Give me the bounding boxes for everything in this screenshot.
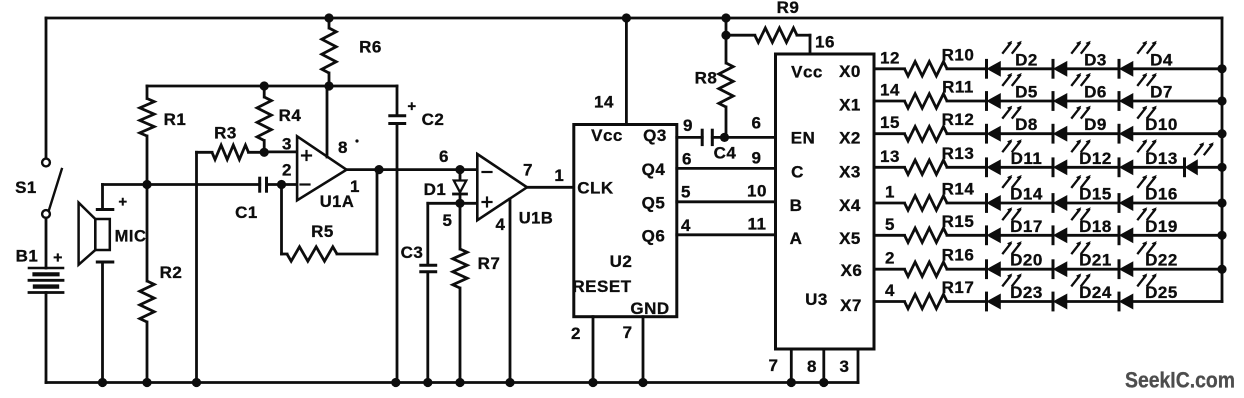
switch S1 — [15, 159, 62, 218]
LED D18 — [1053, 207, 1112, 244]
svg-text:B1: B1 — [16, 246, 39, 265]
svg-text:3: 3 — [840, 357, 850, 376]
svg-text:D6: D6 — [1084, 83, 1107, 102]
junction: U3 pin8/ground — [819, 378, 828, 387]
wire: R3 to ground rail — [195, 152, 198, 382]
resistor R2 — [140, 185, 183, 383]
junction: row 5/right rail — [1217, 198, 1226, 207]
wire: bottom ground rail — [46, 381, 858, 384]
svg-text:C4: C4 — [714, 144, 737, 163]
resistor R11 — [880, 78, 986, 109]
svg-text:U3: U3 — [805, 290, 828, 309]
svg-text:7: 7 — [623, 323, 633, 342]
svg-text:5: 5 — [885, 215, 895, 234]
junction: R6 top rail — [324, 13, 333, 22]
svg-text:11: 11 — [748, 215, 767, 234]
junction: U1A output/R5 — [374, 165, 383, 174]
LED D21 — [1053, 241, 1112, 278]
LED D15 — [1053, 175, 1112, 212]
svg-text:4: 4 — [496, 215, 506, 234]
resistor R7 — [453, 203, 501, 382]
svg-text:D7: D7 — [1150, 83, 1173, 102]
wire: node to U1A pin 3 — [264, 150, 297, 153]
LED D20 — [987, 241, 1043, 278]
svg-text:R9: R9 — [777, 0, 800, 17]
junction: U2 pin7/ground — [638, 378, 647, 387]
svg-text:D3: D3 — [1084, 50, 1107, 69]
LED D23 — [987, 273, 1043, 310]
svg-text:9: 9 — [683, 116, 693, 135]
LED D2 — [987, 41, 1038, 77]
svg-text:D16: D16 — [1145, 185, 1178, 204]
svg-text:D24: D24 — [1079, 283, 1112, 302]
junction: R2/ground — [142, 378, 151, 387]
wire: S1 to battery — [45, 218, 48, 268]
junction: top rail above R8 — [721, 13, 730, 22]
LED D10 — [1119, 106, 1178, 143]
wire: D7 to right rail — [1133, 100, 1223, 103]
svg-text:SeekIC.com: SeekIC.com — [1125, 368, 1235, 393]
svg-text:GND: GND — [630, 299, 669, 318]
svg-text:Q4: Q4 — [642, 160, 666, 179]
svg-text:6: 6 — [439, 147, 449, 166]
svg-text:X4: X4 — [839, 196, 861, 215]
wire: U3 output row 6 — [874, 234, 905, 237]
svg-text:8: 8 — [807, 357, 817, 376]
svg-text:D12: D12 — [1079, 149, 1112, 168]
LED D3 — [1053, 41, 1107, 77]
wire: MIC to ground rail — [101, 263, 104, 382]
svg-text:R16: R16 — [942, 246, 975, 265]
wire: node to U1A pin 2 — [282, 183, 298, 186]
svg-text:R13: R13 — [942, 144, 975, 163]
LED D12 — [1053, 139, 1112, 176]
junction: R7/ground — [455, 378, 464, 387]
LED D17 — [987, 207, 1043, 244]
wire: top rail to R8/R9 node — [725, 18, 728, 35]
wire: Vcc rail R1/R4/R6 — [147, 85, 397, 88]
svg-text:R15: R15 — [942, 212, 975, 231]
wire: D20 to D21 — [1000, 268, 1053, 271]
resistor R1 — [140, 86, 187, 185]
svg-text:6: 6 — [682, 150, 692, 169]
wire: D12 to D13 — [1067, 166, 1120, 169]
svg-text:X0: X0 — [839, 62, 861, 81]
svg-text:D20: D20 — [1010, 251, 1043, 270]
svg-text:C: C — [791, 163, 804, 182]
LED D8 — [987, 106, 1038, 143]
wire: U2 Q3 to C4 — [677, 136, 702, 139]
junction: D1 bottom (pin 5 node) — [455, 199, 464, 208]
svg-text:X1: X1 — [839, 96, 861, 115]
LED D22 — [1119, 241, 1178, 278]
LED D24 — [1053, 273, 1112, 310]
svg-text:R12: R12 — [942, 110, 975, 129]
svg-text:R2: R2 — [160, 263, 183, 282]
LED D14 — [987, 175, 1043, 212]
svg-text:Vcc: Vcc — [591, 126, 623, 145]
wire: D17 to D18 — [1000, 234, 1053, 237]
wire: U3 output row 5 — [874, 202, 905, 205]
resistor R9 — [726, 0, 810, 54]
svg-text:2: 2 — [571, 324, 581, 343]
svg-text:D23: D23 — [1010, 283, 1043, 302]
wire: D13 to extra LED — [1133, 166, 1185, 169]
wire: U2 pin 2 to ground — [592, 317, 595, 383]
svg-text:2: 2 — [282, 161, 292, 180]
svg-text:8: 8 — [338, 138, 348, 157]
svg-text:10: 10 — [747, 182, 767, 201]
svg-text:7: 7 — [523, 161, 533, 180]
LED D11 — [987, 139, 1043, 176]
svg-text:D5: D5 — [1015, 83, 1038, 102]
wire: U3 output row 2 — [874, 100, 905, 103]
svg-text:R14: R14 — [942, 180, 975, 199]
svg-text:S1: S1 — [15, 178, 37, 197]
svg-text:CLK: CLK — [577, 178, 614, 197]
wire: D10 to right rail — [1133, 132, 1223, 135]
wire: U3 output row 4 — [874, 166, 905, 169]
svg-text:X7: X7 — [840, 296, 862, 315]
svg-text:C3: C3 — [401, 243, 424, 262]
junction: R4 top / Vcc rail — [260, 81, 269, 90]
svg-text:R8: R8 — [695, 68, 718, 87]
LED D25 — [1119, 273, 1178, 310]
IC U2 — [554, 92, 693, 342]
svg-text:9: 9 — [752, 148, 762, 167]
junction: row 6/right rail — [1217, 231, 1226, 240]
junction: R1/R2/MIC node — [142, 180, 151, 189]
capacitor C2 — [390, 86, 445, 383]
wire: D14 to D15 — [1000, 202, 1053, 205]
resistor R8 — [695, 35, 734, 137]
svg-text:D17: D17 — [1010, 217, 1043, 236]
wire: top supply rail — [46, 17, 1222, 20]
wire: U3 pin 8 to ground — [822, 349, 825, 383]
svg-text:D22: D22 — [1145, 251, 1178, 270]
junction: D1 top (pin 6 node) — [455, 165, 464, 174]
wire: U1A output to U1B pin 6 — [347, 168, 478, 171]
LED D7 — [1119, 73, 1173, 110]
svg-text:R11: R11 — [942, 78, 974, 97]
svg-text:R5: R5 — [311, 222, 334, 241]
svg-text:X5: X5 — [839, 229, 861, 248]
svg-text:R1: R1 — [164, 110, 187, 129]
svg-text:D13: D13 — [1145, 149, 1178, 168]
resistor R4 — [257, 86, 301, 152]
wire: right LED cathode rail — [1221, 18, 1224, 302]
wire: D11 to D12 — [1000, 166, 1053, 169]
wire: C4 to U3 EN — [712, 136, 775, 139]
svg-text:+: + — [407, 98, 416, 115]
svg-text:12: 12 — [880, 48, 900, 67]
svg-text:5: 5 — [681, 183, 691, 202]
svg-text:Q5: Q5 — [642, 194, 666, 213]
wire: left wire from top rail to S1 — [45, 18, 48, 157]
svg-text:R7: R7 — [478, 254, 501, 273]
wire: D23 to D24 — [1000, 300, 1053, 303]
svg-text:5: 5 — [443, 211, 453, 230]
svg-text:D18: D18 — [1079, 217, 1112, 236]
svg-text:Q6: Q6 — [642, 227, 666, 246]
svg-text:1: 1 — [554, 166, 564, 185]
wire: D22 to right rail — [1133, 268, 1223, 271]
LED D4 — [1119, 41, 1173, 77]
svg-text:D9: D9 — [1084, 115, 1107, 134]
wire: D18 to D19 — [1067, 234, 1120, 237]
LED (unlabeled, row X3) — [1185, 142, 1214, 176]
junction: row 4/right rail — [1217, 163, 1226, 172]
svg-text:D25: D25 — [1145, 283, 1178, 302]
svg-text:1: 1 — [885, 183, 895, 202]
svg-text:6: 6 — [752, 113, 762, 132]
wire: MIC signal line to C1 — [103, 183, 260, 186]
LED D9 — [1053, 106, 1107, 143]
resistor R13 — [880, 144, 986, 175]
svg-text:X6: X6 — [841, 261, 863, 280]
svg-text:Vcc: Vcc — [791, 62, 823, 81]
svg-text:4: 4 — [885, 281, 895, 300]
svg-text:D14: D14 — [1010, 185, 1043, 204]
resistor R6 — [322, 18, 382, 86]
wire: D21 to D22 — [1067, 268, 1120, 271]
svg-text:D19: D19 — [1145, 217, 1178, 236]
LED D13 — [1119, 139, 1178, 176]
wire: D4 to right rail — [1133, 67, 1223, 70]
op-amp U1A — [282, 86, 360, 211]
svg-text:R10: R10 — [942, 45, 975, 64]
wire: U3 output row 3 — [874, 132, 905, 135]
svg-text:A: A — [790, 229, 803, 248]
junction: R6/pin8 on Vcc rail — [324, 81, 333, 90]
wire: extra LED to right rail — [1197, 166, 1222, 169]
IC U3 — [747, 33, 874, 377]
svg-text:D8: D8 — [1015, 115, 1038, 134]
microphone MIC — [79, 185, 147, 265]
svg-text:D15: D15 — [1079, 185, 1112, 204]
junction: U1B pin4/ground — [505, 378, 514, 387]
svg-text:13: 13 — [880, 147, 900, 166]
capacitor C1 — [235, 178, 281, 222]
wire: U3 pin 7 to ground — [790, 349, 793, 383]
svg-text:16: 16 — [815, 33, 835, 52]
svg-text:X3: X3 — [839, 163, 861, 182]
junction: R3/ground — [192, 378, 201, 387]
resistor R17 — [885, 278, 986, 309]
svg-text:4: 4 — [681, 216, 691, 235]
svg-text:D11: D11 — [1011, 149, 1043, 168]
wire: D25 to right rail — [1133, 300, 1223, 303]
svg-text:U1A: U1A — [320, 193, 355, 211]
wire: D2 to D3 — [1000, 67, 1053, 70]
junction: row 1/right rail — [1217, 64, 1226, 73]
wire: D8 to D9 — [1000, 132, 1053, 135]
wire: U2 Q5 to U3 B — [677, 200, 776, 203]
resistor R3 — [197, 124, 265, 160]
wire: U3 pin 3 to ground — [857, 349, 860, 383]
wire: U3 output row 7 — [874, 268, 905, 271]
resistor R12 — [880, 110, 986, 141]
watermark SeekIC.com — [1125, 368, 1235, 393]
LED D16 — [1119, 175, 1178, 212]
junction: C2/ground — [391, 378, 400, 387]
op-amp U1B — [439, 147, 553, 383]
svg-text:X2: X2 — [839, 129, 861, 148]
wire: D6 to D7 — [1067, 100, 1120, 103]
svg-text:R6: R6 — [359, 38, 382, 57]
wire: battery to ground rail — [45, 293, 48, 383]
junction: C3/ground — [423, 378, 432, 387]
LED D6 — [1053, 73, 1107, 110]
svg-text:MIC: MIC — [115, 228, 147, 246]
wire: D15 to D16 — [1067, 202, 1120, 205]
junction: C1/R5/pin2 node — [277, 180, 286, 189]
wire: D24 to D25 — [1067, 300, 1120, 303]
wire: D19 to right rail — [1133, 234, 1223, 237]
svg-text:C2: C2 — [422, 110, 445, 129]
junction: U2 pin2/ground — [588, 378, 597, 387]
svg-text:C1: C1 — [235, 203, 258, 222]
junction: row 7/right rail — [1217, 265, 1226, 274]
svg-text:D4: D4 — [1150, 50, 1173, 69]
svg-text:2: 2 — [885, 249, 895, 268]
wire: U2 Q6 to U3 A — [677, 233, 776, 236]
resistor R5 — [282, 170, 378, 262]
svg-text:U2: U2 — [610, 252, 633, 271]
svg-text:R17: R17 — [942, 278, 975, 297]
svg-text:D21: D21 — [1079, 251, 1112, 270]
svg-text:B: B — [790, 196, 803, 215]
svg-text:+: + — [118, 194, 127, 211]
svg-text:15: 15 — [880, 113, 900, 132]
wire: U1B output to U2 CLK — [528, 186, 574, 189]
resistor R16 — [885, 246, 986, 277]
LED D5 — [987, 73, 1038, 110]
resistor R15 — [885, 212, 986, 243]
svg-text:R4: R4 — [279, 106, 302, 125]
svg-text:R3: R3 — [214, 124, 237, 143]
svg-text:EN: EN — [791, 129, 816, 148]
svg-text:Q3: Q3 — [643, 126, 667, 145]
junction: R8/R9 node — [721, 31, 730, 40]
wire: U2 pin 14 Vcc from top rail — [625, 18, 628, 125]
wire: U3 output row 1 — [874, 67, 905, 70]
capacitor C4 — [702, 130, 736, 162]
svg-text:U1B: U1B — [519, 210, 554, 228]
wire: U3 output row 8 — [874, 300, 905, 303]
wire: D16 to right rail — [1133, 202, 1223, 205]
diode D1 — [424, 170, 467, 204]
junction: MIC/ground — [98, 378, 107, 387]
svg-text:D2: D2 — [1015, 50, 1038, 69]
wire: D5 to D6 — [1000, 100, 1053, 103]
junction: row 2/right rail — [1217, 96, 1226, 105]
junction: U3 pin7/ground — [787, 378, 796, 387]
resistor R10 — [880, 45, 986, 76]
battery B1 — [16, 246, 63, 292]
svg-text:D1: D1 — [424, 180, 447, 199]
resistor R14 — [885, 180, 986, 211]
wire: U2 pin 7 to ground — [642, 317, 645, 383]
svg-text:14: 14 — [880, 81, 900, 100]
svg-text:3: 3 — [282, 135, 292, 154]
LED D19 — [1119, 207, 1178, 244]
svg-text:D10: D10 — [1145, 115, 1178, 134]
junction: R3/R4/pin3 node — [260, 148, 269, 157]
wire: U2 Q4 to U3 C — [677, 167, 776, 170]
wire: D3 to D4 — [1067, 67, 1120, 70]
junction: C4/R8 node — [720, 133, 729, 142]
capacitor C3 — [401, 203, 460, 382]
svg-text:14: 14 — [594, 92, 614, 111]
junction: pin14/top rail — [622, 13, 631, 22]
svg-text:7: 7 — [769, 356, 779, 375]
junction: row 3/right rail — [1217, 129, 1226, 138]
svg-text:RESET: RESET — [572, 277, 631, 296]
svg-text:+: + — [53, 250, 63, 267]
wire: pin 5 node to U1B — [460, 202, 478, 205]
wire: D9 to D10 — [1067, 132, 1120, 135]
